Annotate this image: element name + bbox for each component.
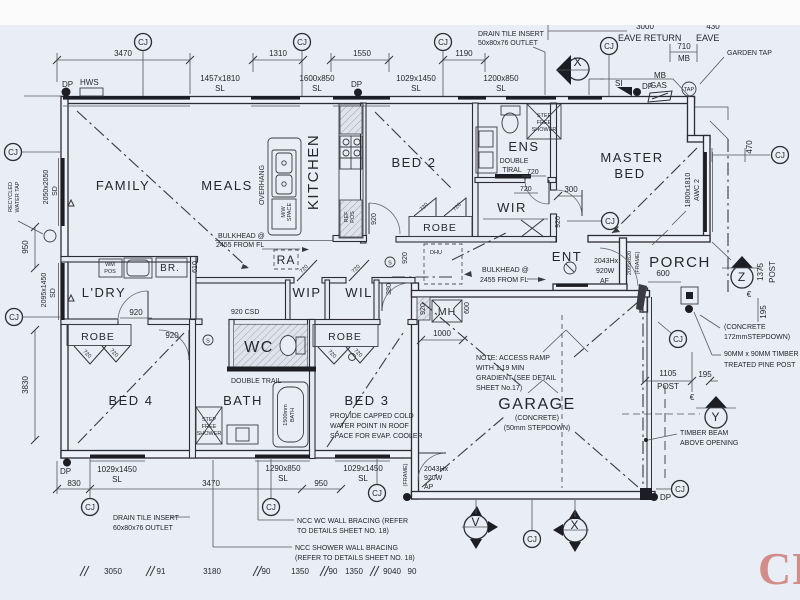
note ncc wc bracing [258, 460, 408, 535]
interior wall: y320 robe3 top [313, 320, 380, 325]
svg-text:TREATED PINE POST: TREATED PINE POST [724, 362, 796, 369]
porch post dp dot [685, 305, 693, 313]
cj circle master [567, 213, 619, 230]
svg-text:L'DRY: L'DRY [82, 285, 126, 300]
svg-text:1457x1810: 1457x1810 [200, 74, 240, 83]
exterior wall: master step horizontal [688, 136, 711, 143]
svg-text:1375: 1375 [756, 263, 765, 281]
svg-text:WC: WC [244, 339, 274, 356]
svg-text:(FRAME): (FRAME) [635, 251, 641, 274]
marker Y garage right [696, 396, 736, 428]
svg-text:NOTE: ACCESS RAMP: NOTE: ACCESS RAMP [476, 355, 550, 362]
svg-text:MEALS: MEALS [201, 178, 253, 193]
label double tiral ens [500, 158, 529, 174]
joist line hall [392, 276, 452, 278]
svg-text:950: 950 [21, 240, 30, 254]
svg-text:NCC SHOWER WALL BRACING: NCC SHOWER WALL BRACING [295, 545, 398, 552]
svg-text:1029x1450: 1029x1450 [97, 465, 137, 474]
svg-text:PROVIDE CAPPED COLD: PROVIDE CAPPED COLD [330, 413, 414, 420]
garage door opening right: double line [646, 297, 648, 492]
window: bottom bed3 1029x1450 [335, 455, 390, 459]
note provide capped cold [330, 413, 423, 440]
svg-text:90MM x 90MM TIMBER LO: 90MM x 90MM TIMBER LO [724, 351, 800, 358]
cj circle top 3 [435, 34, 452, 97]
svg-text:CJ: CJ [605, 217, 615, 226]
svg-text:€: € [747, 290, 752, 299]
window: master right 1800x1810 [704, 152, 707, 232]
svg-text:610: 610 [192, 261, 199, 273]
door ldry [118, 291, 148, 321]
svg-text:WIP: WIP [292, 285, 321, 300]
svg-text:DHU: DHU [430, 250, 442, 256]
svg-text:BED 2: BED 2 [391, 155, 436, 170]
tap circle left wall [44, 230, 56, 242]
exterior wall: bottom (bed4/bath/bed3) [61, 451, 418, 459]
svg-text:1350: 1350 [291, 567, 309, 576]
window: top wall ens 1200x850 [458, 96, 486, 100]
eave diag porch area [652, 230, 668, 245]
svg-text:DRAIN TILE INSERT: DRAIN TILE INSERT [113, 515, 180, 522]
door master bed [556, 190, 582, 216]
cj circle top 1 [135, 34, 152, 97]
bottom window label bath [265, 464, 301, 483]
label MW SPACE rotated [281, 203, 293, 222]
light point ent [564, 262, 576, 274]
interior wall: wc left [229, 320, 234, 370]
cj circle left 1 [5, 144, 61, 161]
svg-text:DP: DP [660, 493, 671, 502]
svg-text:BED: BED [614, 166, 645, 181]
robe bed2 box [409, 217, 472, 237]
svg-text:BULKHEAD @: BULKHEAD @ [482, 267, 529, 274]
window: top wall kitchen 1600x850 [251, 96, 300, 100]
svg-text:FAMILY: FAMILY [96, 178, 150, 193]
wall: porch bottom corner [640, 288, 648, 312]
kitchen cooktop [340, 136, 362, 169]
dhu dashed box [424, 244, 462, 284]
window: bottom bath 1290x850 [255, 455, 310, 459]
svg-text:CJ: CJ [297, 38, 307, 47]
svg-text:CJ: CJ [266, 503, 276, 512]
svg-text:3470: 3470 [202, 479, 220, 488]
dim 3470 bottom [90, 479, 306, 493]
interior wall: bed3 left [310, 320, 316, 459]
svg-text:S: S [206, 339, 210, 345]
note timber post [694, 312, 800, 369]
light point bed3 [349, 354, 356, 361]
dp dot top bed2 [354, 89, 362, 97]
svg-text:MB: MB [678, 54, 690, 63]
svg-text:2455 FROM FL: 2455 FROM FL [216, 242, 264, 249]
svg-text:1600x850: 1600x850 [299, 74, 335, 83]
svg-text:SHOWER: SHOWER [197, 431, 222, 437]
svg-text:CR: CR [758, 543, 800, 594]
garage bottom-right corner post [640, 488, 652, 500]
wc toilet [296, 337, 305, 354]
svg-text:920: 920 [555, 216, 562, 228]
svg-text:DOUBLE TRAIL: DOUBLE TRAIL [231, 378, 282, 385]
joist line bed4 [78, 333, 184, 443]
label 2095x820 frame rotated [627, 251, 641, 275]
eave line top right [600, 79, 690, 97]
svg-text:720: 720 [527, 169, 539, 176]
dim 3470 top [53, 49, 194, 94]
svg-text:(CONCRETE): (CONCRETE) [515, 415, 559, 422]
svg-text:1200x850: 1200x850 [483, 74, 519, 83]
interior wall: hall south x322-346 [322, 278, 346, 284]
ldry trough [124, 258, 152, 278]
svg-text:2043Hx: 2043Hx [424, 466, 449, 473]
svg-text:DRAIN TILE INSERT: DRAIN TILE INSERT [478, 31, 545, 38]
svg-text:ENT: ENT [552, 249, 583, 264]
joist garage X b2 [575, 432, 638, 487]
svg-text:(CONCRETE: (CONCRETE [724, 324, 766, 331]
cj circle garage right [656, 481, 689, 498]
interior wall: ldry/hall right [191, 257, 197, 321]
svg-text:WATER POINT IN ROOF: WATER POINT IN ROOF [330, 423, 409, 430]
svg-text:TO DETAILS SHEET NO. 18): TO DETAILS SHEET NO. 18) [297, 528, 389, 535]
svg-text:NCC WC WALL BRACING (REFER: NCC WC WALL BRACING (REFER [297, 518, 408, 525]
dim 1000 mh [417, 329, 467, 344]
kitchen island sink top [276, 153, 292, 173]
svg-text:CJ: CJ [85, 503, 95, 512]
svg-text:60x80x76 OUTLET: 60x80x76 OUTLET [113, 525, 174, 532]
svg-text:TAP: TAP [684, 87, 695, 93]
svg-text:ENS: ENS [508, 139, 539, 154]
svg-text:3180: 3180 [203, 567, 221, 576]
window label 1200x850 [483, 74, 519, 93]
robe bed4 flaps [74, 346, 106, 364]
garden tap note [700, 50, 772, 84]
svg-text:SL: SL [278, 474, 288, 483]
svg-text:ABOVE OPENING: ABOVE OPENING [680, 440, 738, 447]
kitchen island bench [268, 138, 301, 235]
centreline through Y marker [622, 413, 700, 415]
dp dot garage bottom-right [650, 493, 658, 501]
svg-text:600: 600 [464, 302, 471, 314]
svg-text:GARDEN TAP: GARDEN TAP [727, 50, 772, 57]
svg-text:195: 195 [759, 305, 768, 319]
white top band overlay [0, 0, 800, 25]
svg-text:2095x1450: 2095x1450 [41, 273, 48, 308]
cj circle top 2 [294, 34, 311, 97]
eave corner family [24, 95, 62, 97]
svg-text:SL: SL [411, 84, 421, 93]
svg-text:RECYCLED: RECYCLED [8, 182, 14, 212]
interior wall: wip left [286, 280, 291, 321]
dp dot top-left corner [62, 88, 71, 97]
eave line master right dash [727, 139, 729, 292]
svg-text:MH: MH [438, 306, 456, 318]
svg-text:AF: AF [600, 278, 609, 285]
svg-text:920: 920 [371, 213, 378, 225]
svg-text:920: 920 [129, 308, 143, 317]
svg-text:SL: SL [215, 84, 225, 93]
dp dot bottom-left corner [63, 459, 71, 467]
svg-text:POS: POS [350, 211, 356, 223]
svg-text:CJ: CJ [527, 535, 537, 544]
svg-text:CJ: CJ [372, 489, 382, 498]
robe bed2 flaps [414, 198, 436, 216]
svg-text:OVERHANG: OVERHANG [259, 165, 266, 205]
svg-text:(REFER TO DETAILS SHEET NO. 18: (REFER TO DETAILS SHEET NO. 18) [295, 555, 415, 562]
hws box top [80, 88, 103, 96]
left labels: 2050x2050 SD [43, 170, 59, 205]
note drain tile bottom [113, 515, 190, 532]
interior wall: master left lower (below door) [551, 214, 557, 242]
svg-text:€: € [690, 393, 695, 402]
svg-text:(FRAME): (FRAME) [403, 463, 409, 486]
bulkhead line kitchen [215, 240, 333, 242]
note ncc shower bracing [213, 460, 415, 562]
dim 830 bottom [53, 461, 94, 494]
ens vanity [476, 127, 497, 173]
wc bottom towel rail dark [227, 367, 316, 372]
svg-text:WATER TAP: WATER TAP [15, 181, 21, 212]
interior wall: ldry top [61, 257, 198, 263]
svg-text:DOUBLE: DOUBLE [500, 158, 529, 165]
svg-text:SL: SL [358, 474, 368, 483]
svg-text:BATH: BATH [223, 393, 263, 408]
label wm pos [104, 262, 116, 275]
dim 300 wir [554, 185, 582, 200]
dim 1550 top [327, 49, 393, 72]
dim 950 bottom [302, 479, 345, 493]
ldry wm pos [99, 259, 122, 277]
RA dashed box [274, 250, 298, 269]
svg-text:830: 830 [67, 479, 81, 488]
cj circle bottom 3 [369, 459, 386, 502]
smoke detector bath hall [203, 335, 213, 345]
svg-text:CJ: CJ [438, 38, 448, 47]
svg-text:1800x1810: 1800x1810 [685, 173, 692, 208]
svg-text:CJ: CJ [673, 335, 683, 344]
label 2043Hx 920W AF ent [594, 258, 619, 285]
dp dot near master si [633, 88, 641, 96]
svg-text:FREE: FREE [537, 120, 552, 126]
wall: ENT bottom to porch [553, 284, 627, 291]
svg-text:BULKHEAD @: BULKHEAD @ [218, 233, 265, 240]
window: top wall family [63, 96, 190, 100]
svg-text:920W: 920W [596, 268, 615, 275]
door wir leaf folded [521, 220, 544, 237]
svg-text:3830: 3830 [21, 376, 30, 394]
interior wall: bed2/ens [473, 103, 479, 237]
svg-text:SL: SL [312, 84, 322, 93]
svg-text:1500mm: 1500mm [283, 404, 289, 426]
svg-text:2095x820: 2095x820 [627, 251, 633, 275]
svg-text:SD: SD [50, 288, 57, 298]
cj circle bottom 1 [82, 459, 99, 516]
marker X top [556, 55, 604, 95]
label REF POS rotated [344, 211, 356, 223]
svg-text:EAVE: EAVE [696, 33, 719, 43]
svg-text:Z: Z [738, 270, 746, 284]
interior wall: ens bottom right jamb [548, 178, 556, 183]
svg-text:9040: 9040 [383, 567, 401, 576]
garage door centreline dash [642, 300, 644, 490]
bulkhead ent note [464, 267, 546, 284]
porch post box [681, 287, 698, 304]
svg-text:1350: 1350 [345, 567, 363, 576]
svg-text:SL: SL [112, 475, 122, 484]
svg-text:BR.: BR. [160, 263, 180, 274]
ens toilet [501, 106, 520, 115]
svg-text:920 CSD: 920 CSD [231, 309, 259, 316]
robe bed3 box [313, 325, 378, 347]
svg-text:SD: SD [52, 186, 59, 196]
wall: garage left [412, 283, 419, 499]
svg-text:STEP: STEP [202, 417, 217, 423]
door bed4 [159, 330, 189, 360]
svg-text:SHEET No.17): SHEET No.17) [476, 385, 522, 392]
exterior wall: master step right upper [688, 97, 695, 142]
window label 1029x1450 [396, 74, 436, 93]
interior wall: hall north (robe2+wir bottom) [396, 237, 556, 243]
svg-text:1105: 1105 [659, 369, 677, 378]
marker X garage bottom [553, 500, 589, 552]
note access ramp [476, 330, 588, 393]
svg-text:KITCHEN: KITCHEN [305, 134, 322, 210]
svg-text:SL: SL [496, 84, 506, 93]
window: top wall ens2 [506, 96, 556, 100]
interior wall: kitchen/bed2 [361, 103, 367, 243]
svg-text:STEP: STEP [537, 113, 552, 119]
svg-text:920W: 920W [424, 475, 443, 482]
svg-text:EAVE RETURN: EAVE RETURN [618, 33, 681, 43]
svg-text:(50mm STEPDOWN): (50mm STEPDOWN) [504, 425, 571, 432]
dim 3830 left [21, 326, 39, 444]
svg-text:ROBE: ROBE [328, 331, 362, 343]
svg-text:TIMBER BEAM: TIMBER BEAM [680, 430, 728, 437]
svg-text:1029x1450: 1029x1450 [396, 74, 436, 83]
label step free shower bath [197, 417, 222, 437]
dim 1310 top [249, 49, 307, 72]
svg-text:FREE: FREE [202, 424, 217, 430]
dim 1105 post [641, 352, 718, 402]
cj circle left 2 [6, 309, 61, 326]
svg-text:RA: RA [277, 253, 296, 267]
svg-text:1190: 1190 [455, 49, 473, 58]
wall: ENT right / porch left [620, 238, 627, 291]
interior wall: bed4 right [190, 320, 196, 459]
svg-text:90: 90 [262, 567, 271, 576]
svg-text:SHOWER: SHOWER [532, 127, 557, 133]
svg-text:195: 195 [698, 370, 712, 379]
svg-text:BATH: BATH [290, 408, 296, 422]
svg-text:1310: 1310 [269, 49, 287, 58]
svg-text:WIL: WIL [345, 285, 373, 300]
bottom window label bed4 [97, 465, 137, 484]
recycled water tap rotated [8, 181, 43, 234]
door garage ap [418, 453, 446, 481]
svg-text:470: 470 [745, 140, 754, 154]
eave mitre master step [695, 107, 728, 120]
svg-text:380: 380 [386, 283, 393, 295]
white top band [0, 0, 800, 25]
svg-text:720: 720 [520, 186, 532, 193]
interior wall: wil right [374, 280, 379, 321]
joist line bed3 [327, 330, 405, 447]
svg-text:2455 FROM FL: 2455 FROM FL [480, 277, 528, 284]
svg-text:DP: DP [60, 467, 71, 476]
bottom window label bed3 [343, 464, 383, 483]
ens shower [527, 104, 561, 139]
ldry BR cupboard [156, 258, 187, 277]
joist garage X b [422, 302, 520, 385]
svg-text:WIR: WIR [497, 200, 527, 215]
note concrete stepdown porch [700, 315, 790, 341]
door bed3 [382, 283, 410, 311]
svg-text:BED 4: BED 4 [108, 393, 153, 408]
bath shower [196, 407, 222, 444]
svg-text:1550: 1550 [353, 49, 371, 58]
wir shelf line [483, 218, 548, 220]
svg-text:950: 950 [314, 479, 328, 488]
cj circle porch [658, 322, 687, 348]
svg-text:1290x850: 1290x850 [265, 464, 301, 473]
cj circle top 4 [601, 38, 618, 97]
svg-text:1029x1450: 1029x1450 [343, 464, 383, 473]
window: bottom bed4 1029x1450 [90, 455, 145, 459]
dim 1375 post right [747, 261, 777, 322]
bottom chain dims [80, 566, 417, 576]
svg-text:710: 710 [677, 42, 691, 51]
wc hatch [234, 325, 308, 367]
svg-text:POST: POST [657, 382, 679, 391]
svg-text:BED 3: BED 3 [344, 393, 389, 408]
svg-text:3050: 3050 [104, 567, 122, 576]
svg-text:ROBE: ROBE [423, 222, 457, 234]
marker V garage bottom [462, 500, 498, 549]
interior wall: y320 ldry bottom right [148, 319, 202, 325]
window sill line master right [712, 152, 714, 232]
exterior wall: master right (window wall) [704, 136, 711, 242]
svg-text:S: S [388, 261, 392, 267]
bulkhead kitchen note [216, 233, 309, 252]
window sill lines left wall [58, 158, 60, 226]
interior wall: ens-wir/master [551, 103, 557, 190]
label 1500mm bath rotated [283, 404, 296, 426]
svg-text:MASTER: MASTER [600, 150, 663, 165]
svg-text:2043Hx: 2043Hx [594, 258, 619, 265]
window sill lines bottom wall [90, 460, 145, 462]
roof line above garage opening [664, 385, 666, 480]
cj circle bottom 2 [263, 459, 280, 516]
exterior wall: master bottom [588, 236, 710, 243]
interior wall: kitchen bottom [333, 236, 367, 242]
svg-text:X: X [573, 55, 582, 69]
door entry front arc [600, 248, 638, 286]
svg-text:3470: 3470 [114, 49, 132, 58]
kitchen bench right [339, 104, 363, 238]
marker Z porch [722, 256, 762, 288]
interior wall: hall south x196-294 [196, 278, 294, 284]
svg-text:SI: SI [615, 79, 623, 88]
svg-text:920: 920 [420, 303, 427, 315]
svg-text:WM: WM [105, 262, 115, 268]
svg-text:90: 90 [329, 567, 338, 576]
svg-text:POS: POS [104, 269, 116, 275]
svg-text:SPACE FOR EVAP. COOLER: SPACE FOR EVAP. COOLER [330, 433, 423, 440]
interior wall: y320 wc top [229, 320, 313, 325]
interior wall: y320 bed3 nook [408, 320, 417, 325]
svg-text:50x80x76 OUTLET: 50x80x76 OUTLET [478, 40, 539, 47]
garage panel door dash [561, 315, 563, 488]
dim eave return line [548, 22, 720, 43]
joist garage X a [422, 417, 504, 487]
robe bed3 flaps [318, 347, 350, 364]
